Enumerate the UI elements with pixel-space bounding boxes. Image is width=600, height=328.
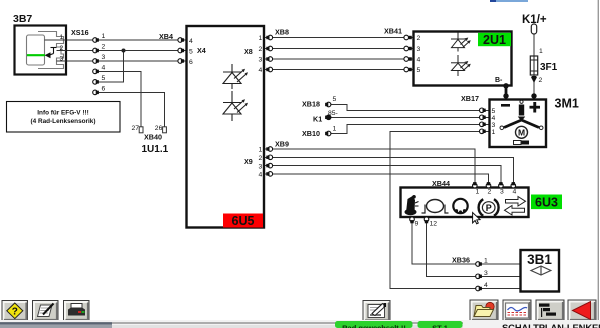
svg-text:XB40: XB40 [144,132,162,141]
svg-text:Info für EFG-V !!!: Info für EFG-V !!! [37,110,88,117]
svg-text:4: 4 [484,282,488,289]
svg-text:5: 5 [189,48,193,55]
svg-text:3: 3 [484,270,488,277]
svg-text:1: 1 [259,147,263,154]
svg-text:B-: B- [495,77,503,84]
svg-text:ST-1: ST-1 [432,324,448,328]
svg-text:1: 1 [476,189,480,196]
svg-text:XB8: XB8 [275,28,289,37]
svg-text:XB17: XB17 [461,94,479,103]
svg-text:6: 6 [189,59,193,66]
svg-text:3F1: 3F1 [540,62,558,73]
svg-text:6U3: 6U3 [535,196,558,210]
svg-text:1: 1 [539,48,543,55]
svg-text:4: 4 [513,189,517,196]
svg-text:XB9: XB9 [275,140,289,149]
svg-text:6: 6 [102,86,106,93]
svg-text:5: 5 [492,108,496,115]
svg-text:2: 2 [102,44,106,51]
svg-text:3: 3 [259,163,263,170]
svg-text:XB41: XB41 [384,27,402,36]
svg-text:K1: K1 [313,115,322,124]
svg-text:2: 2 [259,46,263,53]
svg-text:2U1: 2U1 [483,33,506,47]
svg-text:P: P [486,203,492,213]
svg-text:(4 Rad-Lenksensorik): (4 Rad-Lenksensorik) [31,118,96,125]
svg-text:1: 1 [60,34,64,41]
svg-text:2: 2 [259,155,263,162]
svg-text:3: 3 [492,122,496,129]
svg-text:1: 1 [259,35,263,42]
svg-text:4: 4 [102,65,106,72]
svg-text:?: ? [12,307,18,318]
svg-text:2: 2 [539,77,543,84]
svg-text:2: 2 [60,45,64,52]
svg-text:1: 1 [333,126,337,133]
svg-text:XB4: XB4 [159,32,173,41]
svg-text:2: 2 [488,189,492,196]
svg-text:1U1.1: 1U1.1 [142,144,169,155]
svg-text:1: 1 [484,258,488,265]
svg-text:1: 1 [492,129,496,136]
svg-text:K1/+: K1/+ [522,14,547,26]
svg-text:3: 3 [417,46,421,53]
svg-text:3M1: 3M1 [555,97,579,111]
svg-text:5: 5 [102,75,106,82]
svg-text:3: 3 [259,57,263,64]
svg-text:3: 3 [60,56,64,63]
svg-text:9: 9 [415,221,419,228]
svg-text:5: 5 [333,96,337,103]
svg-text:M: M [518,128,525,138]
svg-text:X9: X9 [244,157,253,166]
svg-text:4: 4 [259,172,263,179]
svg-text:26: 26 [155,125,163,132]
svg-text:3B7: 3B7 [13,13,32,25]
svg-text:X8: X8 [244,47,253,56]
svg-text:5: 5 [417,67,421,74]
svg-text:6U5: 6U5 [232,214,255,228]
svg-text:85-: 85- [328,110,338,117]
svg-text:X4: X4 [197,46,206,55]
svg-text:XS16: XS16 [71,28,89,37]
svg-text:2: 2 [417,35,421,42]
svg-text:27: 27 [132,125,140,132]
svg-text:Rad gewechselt !!: Rad gewechselt !! [342,324,406,328]
svg-text:12: 12 [430,221,438,228]
svg-text:XB44: XB44 [432,179,450,188]
svg-text:4: 4 [189,38,193,45]
svg-text:XB18: XB18 [302,100,320,109]
svg-text:1: 1 [102,33,106,40]
svg-text:3B1: 3B1 [527,252,552,267]
svg-text:4: 4 [259,67,263,74]
svg-text:4: 4 [492,115,496,122]
svg-text:3: 3 [102,54,106,61]
svg-text:SCHALTPLAN-LENKEN: SCHALTPLAN-LENKEN [502,322,600,328]
svg-text:XB10: XB10 [302,129,320,138]
svg-text:3: 3 [500,189,504,196]
svg-text:XB36: XB36 [452,256,470,265]
svg-text:4: 4 [417,57,421,64]
